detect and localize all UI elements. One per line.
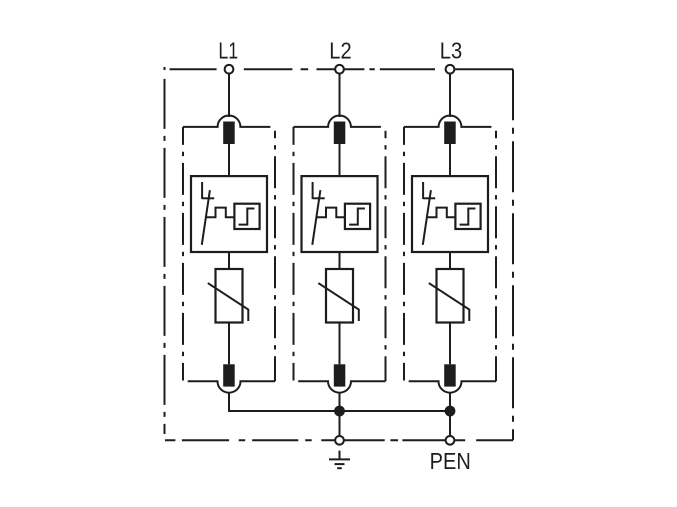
wire top clamp to disconnector (L2 path) — [339, 144, 341, 176]
thermal disconnector box (L1 path) — [191, 176, 267, 252]
top clamp terminal block (L2 path) — [334, 122, 346, 145]
ground terminal circle — [335, 436, 344, 445]
module boundary left edge (L3 path) — [403, 127, 405, 381]
trip linkage square wave (L3 path) — [427, 208, 456, 218]
disconnector fixed contact (L3 path) — [422, 182, 424, 199]
disconnector contact tick (L2 path) — [313, 197, 325, 199]
node L2 label — [329, 37, 351, 64]
wire top clamp to disconnector (L1 path) — [228, 144, 230, 176]
varistor diagonal stroke (L1 path) — [208, 283, 249, 321]
bottom clamp terminal block (L2 path) — [334, 364, 346, 386]
module boundary right edge (L2 path) — [385, 131, 387, 382]
enclosure outline left edge (dash-dot) — [164, 67, 166, 70]
module boundary left edge (L1 path) — [182, 127, 184, 381]
thermal disconnector box (L2 path) — [302, 176, 378, 252]
PE bus wire — [228, 410, 450, 412]
disconnector fixed contact (L1 path) — [201, 182, 203, 199]
terminal circle L1 — [225, 65, 234, 74]
svg-text:L2: L2 — [329, 37, 351, 64]
ground symbol — [329, 451, 350, 469]
wire disconnector to varistor (L2 path) — [339, 252, 341, 269]
module boundary top edge with clamp arc (L3 path) — [404, 116, 491, 127]
varistor rectangle (L1 path) — [216, 269, 243, 323]
surge step symbol (L3 path) — [460, 209, 476, 225]
wire L2 bottom clamp to ground terminal — [339, 393, 341, 436]
varistor diagonal stroke (L2 path) — [318, 283, 359, 321]
wire varistor to bottom clamp (L3 path) — [449, 323, 451, 365]
svg-text:L3: L3 — [440, 37, 462, 64]
module boundary right edge (L3 path) — [495, 131, 497, 382]
surge indicator box (L3 path) — [455, 204, 480, 229]
module boundary right edge (L1 path) — [274, 131, 276, 382]
wire disconnector to varistor (L3 path) — [449, 252, 451, 269]
node PEN label — [430, 448, 471, 475]
wire varistor to bottom clamp (L2 path) — [339, 323, 341, 365]
terminal circle L2 — [335, 65, 344, 74]
wire top clamp to disconnector (L3 path) — [449, 144, 451, 176]
disconnector switch blade (L2 path) — [312, 190, 320, 245]
surge step symbol (L2 path) — [349, 209, 365, 225]
junction node bus/L3 — [445, 406, 456, 417]
wire L3 terminal to top clamp — [449, 75, 451, 118]
top clamp terminal block (L3 path) — [444, 122, 456, 145]
wire L1 bottom clamp elbow to PE bus — [228, 393, 230, 411]
disconnector fixed contact (L2 path) — [312, 182, 314, 199]
wire L1 terminal to top clamp — [228, 75, 230, 118]
varistor rectangle (L2 path) — [326, 269, 353, 323]
enclosure outline top edge (dash-dot) — [170, 68, 513, 70]
wire disconnector to varistor (L1 path) — [228, 252, 230, 269]
trip linkage square wave (L2 path) — [316, 208, 345, 218]
varistor rectangle (L3 path) — [437, 269, 464, 323]
wire L2 terminal to top clamp — [339, 75, 341, 118]
disconnector contact tick (L3 path) — [423, 197, 435, 199]
surge step symbol (L1 path) — [239, 209, 255, 225]
svg-text:L1: L1 — [218, 38, 238, 64]
node L3 label — [440, 37, 462, 64]
surge indicator box (L2 path) — [345, 204, 370, 229]
wire varistor to bottom clamp (L1 path) — [228, 323, 230, 365]
disconnector contact tick (L1 path) — [202, 197, 214, 199]
enclosure outline right edge (dash-dot) — [512, 69, 514, 440]
top clamp terminal block (L1 path) — [223, 122, 235, 145]
svg-text:PEN: PEN — [430, 448, 471, 475]
trip linkage square wave (L1 path) — [206, 208, 235, 218]
module boundary top edge with clamp arc (L1 path) — [183, 116, 270, 127]
thermal disconnector box (L3 path) — [412, 176, 488, 252]
disconnector switch blade (L1 path) — [202, 190, 210, 245]
module boundary left edge (L2 path) — [293, 127, 295, 381]
terminal circle L3 — [446, 65, 455, 74]
module boundary bottom edge with clamp arc (L3 path) — [409, 381, 496, 393]
module boundary top edge with clamp arc (L2 path) — [294, 116, 381, 127]
bottom clamp terminal block (L1 path) — [223, 364, 235, 386]
junction node bus/L2 — [334, 406, 345, 417]
node L1 label — [218, 38, 238, 64]
enclosure outline bottom edge (dash-dot) — [165, 439, 513, 441]
wire L3 bottom clamp to PEN terminal — [449, 393, 451, 436]
varistor diagonal stroke (L3 path) — [429, 283, 470, 321]
disconnector switch blade (L3 path) — [423, 190, 431, 245]
bottom clamp terminal block (L3 path) — [444, 364, 456, 386]
module boundary bottom edge with clamp arc (L1 path) — [188, 381, 275, 393]
PEN terminal circle — [446, 436, 455, 445]
module boundary bottom edge with clamp arc (L2 path) — [298, 381, 385, 393]
surge indicator box (L1 path) — [234, 204, 259, 229]
